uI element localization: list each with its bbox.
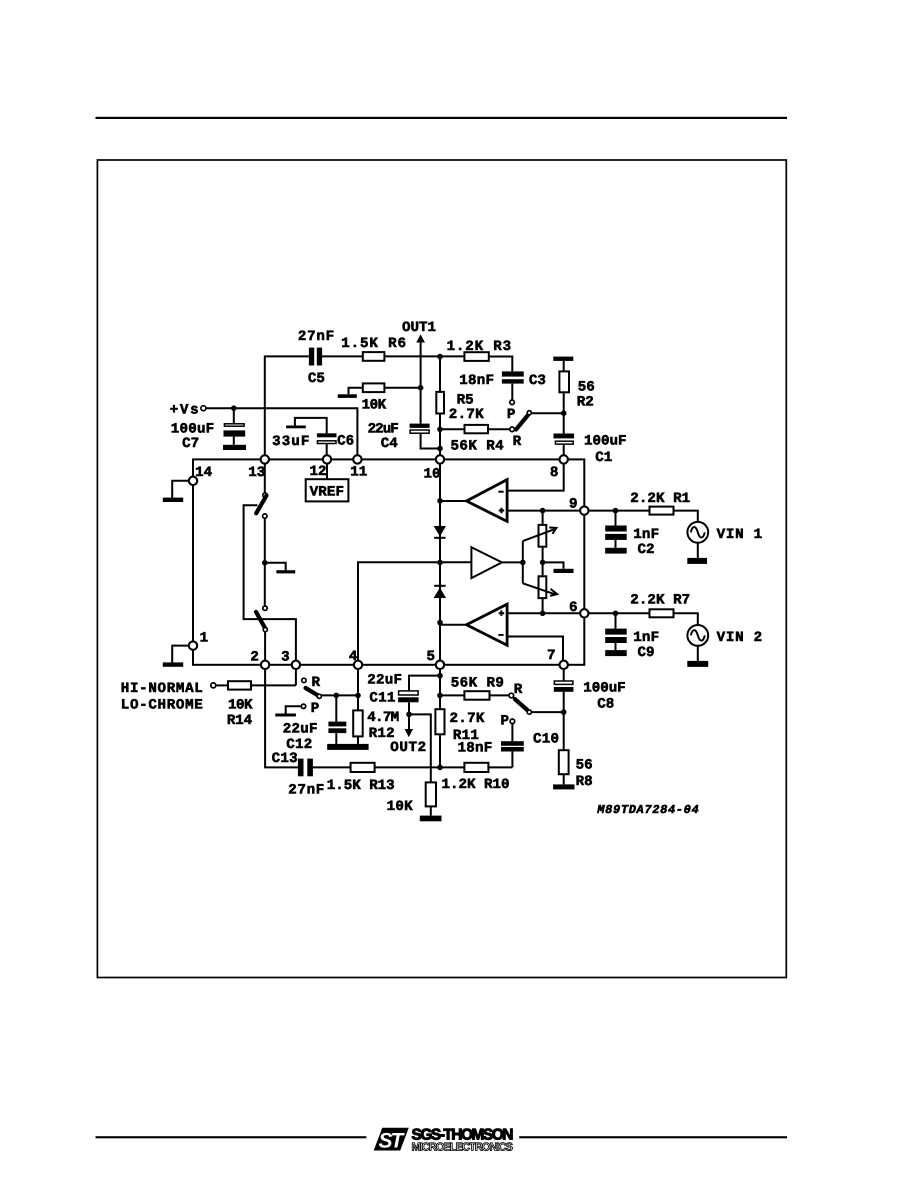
svg-text:P: P <box>507 407 516 423</box>
svg-text:C8: C8 <box>597 697 614 713</box>
svg-text:27nF: 27nF <box>288 782 324 798</box>
svg-text:+Vs: +Vs <box>170 402 199 418</box>
node pot top junction <box>540 508 546 514</box>
svg-text:56: 56 <box>578 379 595 395</box>
svg-text:1.5K R13: 1.5K R13 <box>327 778 395 794</box>
svg-text:1: 1 <box>200 631 209 647</box>
pin 9 node <box>580 506 588 514</box>
node C2 junction <box>613 508 619 514</box>
svg-text:56K R4: 56K R4 <box>451 439 505 455</box>
svg-text:7: 7 <box>547 648 556 664</box>
svg-text:11: 11 <box>350 465 367 481</box>
wire S1b to pin 2 <box>264 632 266 661</box>
wire pin 6 row <box>589 613 698 625</box>
capacitor C2 1nF <box>605 511 627 548</box>
node C7 junction <box>231 405 237 411</box>
svg-text:10: 10 <box>424 466 441 482</box>
contact S1a top <box>263 493 267 497</box>
switch lever (top P/R) <box>516 411 531 430</box>
ground C2 <box>605 548 627 554</box>
logo ST symbol <box>374 1128 409 1153</box>
wire switch bus to pin 3 <box>244 505 296 660</box>
wire R14 to pin 3 <box>251 669 296 685</box>
pin 3 node <box>292 661 300 669</box>
resistor 10K (feedback top) <box>363 383 385 392</box>
node C8/R8 junction <box>561 709 567 715</box>
pin 4 node <box>354 661 362 669</box>
wire C4 bottom to node10 column <box>421 434 440 449</box>
node buffer input junction <box>437 560 443 566</box>
pin 6 node <box>580 609 588 617</box>
wire diode column pin10 to pin5 <box>439 464 441 661</box>
footer rule left <box>96 1136 367 1138</box>
svg-text:R8: R8 <box>576 774 593 790</box>
svg-text:HI-NORMAL: HI-NORMAL <box>121 681 203 697</box>
pin 10 node <box>436 455 444 463</box>
tap pot mid <box>543 562 574 573</box>
op-amp A3 <box>467 604 508 645</box>
wire R3 to C3 <box>489 357 513 372</box>
node 10K/OUT1 junction <box>418 385 424 391</box>
svg-text:12: 12 <box>310 464 327 480</box>
node A1 output junction <box>437 498 443 504</box>
wire A1 noninverting input to pin 9 <box>507 510 580 512</box>
wiper arrow lower redraw <box>523 583 557 596</box>
svg-text:1.2K R3: 1.2K R3 <box>447 339 512 355</box>
contact S1a bottom <box>263 514 267 518</box>
svg-text:1nF: 1nF <box>633 630 659 646</box>
node R11 bottom junction <box>437 765 443 771</box>
wire A3 inverting input to pin 7 <box>507 637 563 661</box>
wire 10K to OUT1 riser <box>384 387 420 389</box>
capacitor C3 18nF <box>502 371 524 383</box>
svg-text:C2: C2 <box>638 542 655 558</box>
svg-text:18nF: 18nF <box>459 373 494 389</box>
svg-text:C7: C7 <box>182 436 199 452</box>
svg-text:8: 8 <box>550 465 559 481</box>
svg-text:C9: C9 <box>638 645 655 661</box>
resistor R8 56 <box>559 750 569 784</box>
node A3 output junction <box>437 620 443 626</box>
tap 10K left <box>338 388 363 398</box>
wire pin 5 column <box>439 669 441 709</box>
svg-text:10K: 10K <box>362 397 387 413</box>
resistor R11 2.7K <box>435 709 444 767</box>
pin 8 node <box>560 455 568 463</box>
capacitor C10 18nF <box>488 724 523 768</box>
node R9 row junction <box>437 693 443 699</box>
wire pin13 riser and C5 left <box>265 356 309 455</box>
svg-text:VIN 2: VIN 2 <box>717 630 763 646</box>
capacitor C1 100uF <box>554 434 575 456</box>
resistor R7 2.2K <box>650 609 674 617</box>
svg-text:56K R9: 56K R9 <box>451 676 504 692</box>
tap P left <box>275 706 301 716</box>
svg-text:C13: C13 <box>272 751 298 767</box>
terminal OUT2 arrow <box>405 714 413 737</box>
node pot bottom junction <box>540 611 546 617</box>
svg-text:10K: 10K <box>228 698 253 714</box>
svg-text:1.5K R6: 1.5K R6 <box>341 336 406 352</box>
resistor R10 1.2K <box>464 763 488 772</box>
svg-text:M89TDA7284-04: M89TDA7284-04 <box>596 803 698 817</box>
svg-text:18nF: 18nF <box>458 741 493 757</box>
tap switch mid <box>265 563 295 574</box>
svg-text:C5: C5 <box>308 371 325 387</box>
wire OUT2 to 10K load <box>409 714 431 782</box>
svg-text:1.2K R10: 1.2K R10 <box>442 777 510 793</box>
node wiper junction <box>520 560 526 566</box>
svg-text:4: 4 <box>349 649 358 665</box>
resistor R6 1.5K <box>363 352 385 361</box>
switch S1a wire from pin13 <box>264 464 266 493</box>
ground pin 1 <box>163 646 189 667</box>
A1 plus sign <box>499 508 505 514</box>
buffer amp A2 <box>471 547 502 578</box>
wiper bus <box>522 541 524 583</box>
diode D1 <box>434 526 446 538</box>
capacitor C11 22uF <box>398 676 440 715</box>
terminal HI/LO input <box>211 683 216 688</box>
resistor R1 2.2K <box>650 507 674 515</box>
svg-text:22uF: 22uF <box>367 672 402 688</box>
switch lever (bottom P/R) <box>515 699 532 714</box>
svg-text:3: 3 <box>281 650 290 666</box>
node R2 column junction <box>561 410 567 416</box>
resistor R12 4.7M <box>353 669 363 744</box>
wiper arrow upper <box>523 528 557 542</box>
ground VIN2 <box>687 646 708 667</box>
capacitor C13 27nF <box>298 759 313 777</box>
svg-text:MICROELECTRONICS: MICROELECTRONICS <box>412 1141 514 1153</box>
IC body TDA7284 <box>193 459 584 664</box>
A3 plus sign <box>499 610 505 616</box>
wire C13 to R13 <box>313 766 351 768</box>
svg-text:C1: C1 <box>595 450 612 466</box>
svg-text:VIN 1: VIN 1 <box>717 527 763 543</box>
svg-text:27nF: 27nF <box>298 329 334 345</box>
svg-text:2: 2 <box>250 650 259 666</box>
A3 minus sign <box>498 634 503 636</box>
wire pin 2 to C13 <box>265 669 298 767</box>
ground C9 <box>605 650 627 656</box>
wire pin 4 to buffer input <box>358 562 471 660</box>
svg-text:C4: C4 <box>381 436 399 452</box>
potentiometer upper <box>539 511 547 547</box>
node pot mid junction <box>540 547 546 577</box>
op-amp A1 <box>467 480 508 522</box>
capacitor C12 22uF <box>328 695 346 744</box>
capacitor C9 1nF <box>605 613 627 650</box>
contact S1b top <box>263 606 267 610</box>
resistor 10K load <box>426 782 436 815</box>
figure frame <box>97 160 786 978</box>
terminal OUT1 arrow <box>416 334 425 423</box>
svg-text:P: P <box>311 701 320 717</box>
wire +Vs rail to pin11 <box>206 408 358 455</box>
svg-text:4.7M: 4.7M <box>367 710 399 726</box>
ground C12/R12 <box>327 744 368 750</box>
svg-text:14: 14 <box>195 465 213 481</box>
node R4 row junction <box>437 427 443 433</box>
contact P (top switch) <box>510 400 515 405</box>
pin 13 node <box>261 455 269 463</box>
wire pin 9 row <box>589 511 698 522</box>
footer rule right <box>519 1136 787 1138</box>
node R3/R5 junction <box>437 354 443 360</box>
contact R (top switch) <box>510 427 515 432</box>
svg-text:2.2K R1: 2.2K R1 <box>630 491 690 507</box>
source VIN1 <box>687 522 708 543</box>
resistor R9 56K <box>440 691 509 700</box>
ground VIN1 <box>687 543 707 564</box>
wire lever to R2 column <box>532 412 564 414</box>
capacitor C5 <box>309 348 322 366</box>
terminal +Vs <box>201 406 206 411</box>
wire C3 to P contact <box>511 384 513 400</box>
source VIN2 <box>687 625 708 646</box>
svg-text:2.7K: 2.7K <box>450 711 485 727</box>
svg-text:P: P <box>501 713 510 729</box>
svg-text:C11: C11 <box>369 691 395 707</box>
node C12 junction <box>334 693 340 699</box>
node switch tap junction <box>262 560 268 566</box>
svg-text:100uF: 100uF <box>584 434 627 450</box>
pin 11 node <box>353 455 361 463</box>
pin 2 node <box>261 661 269 669</box>
resistor R4 56K <box>440 425 510 433</box>
resistor R13 1.5K <box>351 763 375 772</box>
switch lever S2 <box>306 688 322 699</box>
wire R13 to R10 <box>375 766 465 768</box>
wire buffer output to wiper <box>502 561 523 563</box>
wire A3 noninverting input to pin 6 <box>507 612 580 614</box>
svg-text:R: R <box>312 675 321 691</box>
wire C5 to R6 <box>322 355 363 357</box>
top rule <box>96 117 788 119</box>
svg-text:100uF: 100uF <box>583 680 626 696</box>
wire A1 output to diode column <box>440 500 467 502</box>
svg-text:5: 5 <box>427 649 436 665</box>
switch lever S1a <box>256 496 266 514</box>
contact R (bottom switch) <box>509 693 514 698</box>
capacitor C6 33uF <box>295 418 337 456</box>
svg-text:10K: 10K <box>387 799 413 815</box>
diode D2 <box>434 586 446 598</box>
A1 minus sign <box>498 491 503 493</box>
pin 14 node <box>189 477 197 485</box>
svg-text:R14: R14 <box>227 713 253 729</box>
svg-text:OUT2: OUT2 <box>390 740 426 756</box>
svg-text:2.2K R7: 2.2K R7 <box>630 593 690 609</box>
tap bar above R2 <box>553 357 573 372</box>
wire S1a to S1b <box>264 518 266 606</box>
svg-text:56: 56 <box>576 758 593 774</box>
svg-text:C6: C6 <box>337 434 354 450</box>
svg-text:R: R <box>513 434 522 450</box>
svg-text:C10: C10 <box>533 731 559 747</box>
svg-text:R2: R2 <box>577 394 594 410</box>
resistor R3 1.2K <box>464 352 488 361</box>
resistor R14 10K <box>216 681 251 689</box>
contact P (left switch) <box>301 704 305 708</box>
svg-text:OUT1: OUT1 <box>402 320 436 336</box>
svg-text:22uF: 22uF <box>283 721 318 737</box>
node R12 top junction <box>355 693 361 699</box>
resistor R5 2.7K <box>436 357 444 456</box>
node OUT2 junction <box>406 712 412 718</box>
wire A3 output to diode column <box>440 624 467 626</box>
node C9 junction <box>613 611 619 617</box>
svg-text:R: R <box>514 682 523 698</box>
svg-text:33uF: 33uF <box>272 434 309 450</box>
node C4 junction <box>437 446 443 452</box>
pin 12 node <box>323 455 331 463</box>
pin 7 node <box>560 661 568 669</box>
tap C6 <box>286 426 306 429</box>
svg-text:13: 13 <box>248 465 265 481</box>
svg-text:1nF: 1nF <box>633 527 659 543</box>
wire A1 inverting input to pin 8 <box>507 464 564 491</box>
contact P (bottom switch) <box>510 719 515 724</box>
ground pin 14 <box>163 481 189 502</box>
ground C7 <box>223 445 246 450</box>
potentiometer lower <box>539 576 547 613</box>
wire lever to C8 column <box>532 711 564 713</box>
ground R8 <box>553 784 574 789</box>
resistor R2 56 <box>559 371 569 433</box>
svg-text:LO-CHROME: LO-CHROME <box>121 698 203 714</box>
svg-text:C3: C3 <box>529 373 546 389</box>
capacitor C8 100uF <box>554 669 574 750</box>
switch lever S1b <box>256 612 267 632</box>
ground 10K load <box>420 816 442 822</box>
capacitor C4 22uF <box>410 424 430 434</box>
node VREF box <box>306 464 349 502</box>
svg-text:2.7K: 2.7K <box>449 407 484 423</box>
capacitor C7 100uF <box>224 408 246 445</box>
contact R (left switch) <box>302 678 306 682</box>
pin 5 node <box>436 661 444 669</box>
wire lever S2 common row <box>322 694 359 696</box>
pin 1 node <box>189 641 197 649</box>
wire R6 to R3 row <box>384 355 464 357</box>
node C11 branch junction <box>437 673 443 679</box>
svg-text:VREF: VREF <box>310 485 344 501</box>
